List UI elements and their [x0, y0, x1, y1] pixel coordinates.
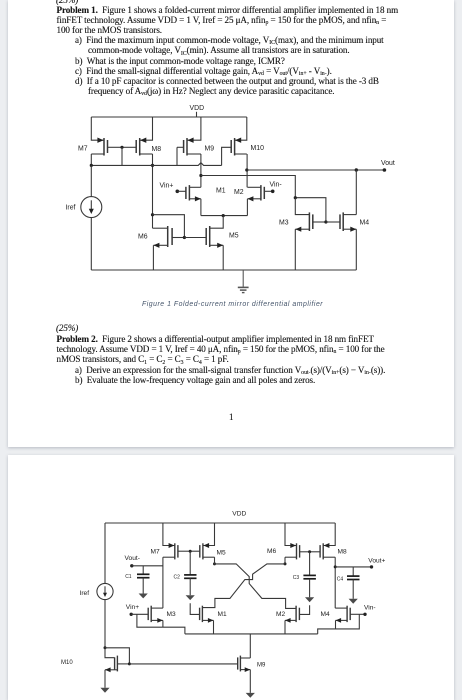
ground: [238, 270, 249, 293]
svg-text:M9: M9: [257, 662, 266, 668]
ground under C2: [186, 595, 195, 600]
wire M8 drain down long: [152, 154, 154, 228]
wire M7 source: [163, 523, 175, 546]
transistor M2: [247, 185, 272, 201]
wire bias rail up to M10 gate: [222, 147, 232, 165]
node M6 drain: [284, 562, 287, 565]
wire bias rail: [91, 163, 221, 166]
current source Iref: [81, 197, 102, 218]
label M3: [279, 220, 289, 227]
wire node B horizontal: [201, 176, 295, 198]
wire M9 drain down to M1 drain: [200, 154, 202, 187]
svg-text:Vout-: Vout-: [125, 555, 140, 562]
wire C1 bottom: [142, 578, 144, 594]
node M4 drain junction: [355, 168, 358, 171]
node M6/M8 gate tie: [308, 550, 311, 553]
wire Vin+ to M3 gate: [131, 613, 148, 615]
ground under C1: [139, 594, 148, 599]
wire Iref bottom to ground rail: [90, 218, 92, 270]
label M6: [138, 233, 148, 240]
wire C3 bottom: [309, 579, 311, 598]
transistor M3: [295, 212, 326, 231]
wire M3 source down: [294, 229, 296, 270]
node Vout- terminal: [130, 564, 133, 567]
node Vout takeoff: [245, 168, 248, 171]
node M7/M5 gate tie: [189, 550, 192, 553]
svg-text:M2: M2: [276, 611, 285, 618]
wire M9 gate tie down: [176, 147, 178, 165]
node Vout+ terminal: [370, 565, 373, 568]
label M6: [267, 548, 276, 555]
wire M2 source down: [284, 620, 286, 634]
wire M8 source to VDD: [140, 117, 153, 140]
wire cross-couple M6 to M1 drain: [202, 564, 285, 608]
label Vin+: [126, 604, 139, 611]
transistor M9: [177, 138, 201, 156]
node M5/M6 gate tie: [183, 236, 186, 239]
wire Vin- loop down: [336, 614, 360, 629]
capacitor C4: [347, 576, 360, 579]
transistor M1: [186, 185, 201, 201]
transistor M2: [285, 606, 299, 623]
wire M5 source: [203, 523, 215, 546]
label M2: [276, 611, 285, 618]
wire tail: [201, 215, 248, 217]
label M4: [360, 220, 370, 227]
label Iref: [80, 590, 90, 597]
node M7/M8 gate tie: [120, 146, 123, 149]
wire M3 source rail: [163, 627, 185, 634]
wire M6 drain lead in: [153, 227, 168, 229]
wire M6 source: [285, 523, 297, 546]
transistor M7: [91, 138, 122, 156]
ground under M10: [100, 688, 109, 693]
node Vin+ terminal: [130, 613, 133, 616]
node M10 drain junction: [128, 662, 131, 665]
transistor M10: [105, 656, 129, 673]
wire VDD rail: [91, 116, 247, 118]
ground under M9: [246, 693, 255, 698]
svg-text:M4: M4: [321, 611, 330, 618]
wire Vin+ to M1 gate: [177, 190, 186, 192]
wire mirror gate M10 to M9: [129, 663, 237, 665]
transistor M4: [335, 606, 365, 623]
label C1: [125, 574, 132, 580]
wire M6 diode loop: [153, 215, 185, 238]
label C2: [174, 575, 181, 581]
wire Vin+ loop down: [137, 614, 163, 627]
wire M1 source down: [200, 199, 202, 216]
svg-text:C3: C3: [293, 575, 300, 581]
label M8: [338, 549, 347, 556]
wire Iref bottom: [104, 600, 106, 648]
transistor M8: [310, 543, 336, 559]
node M5 drain: [213, 562, 216, 565]
wire Vout+: [335, 566, 371, 568]
transistor M5: [184, 226, 223, 248]
wire C1 top: [142, 566, 144, 575]
label M1: [218, 611, 227, 618]
wire M6 source down: [152, 245, 154, 270]
ground under C3: [305, 597, 314, 602]
label Vout-: [125, 555, 140, 562]
transistor M8: [122, 138, 153, 156]
wire M4 source rail: [318, 629, 336, 634]
wire gate tie down to C2: [189, 551, 191, 575]
wire M10 source to VDD: [235, 117, 247, 140]
wire C4 bottom: [352, 580, 354, 599]
wire M1 gate up: [190, 603, 199, 614]
wire M5 drain down: [214, 557, 216, 564]
label C4: [337, 576, 344, 582]
label M3: [167, 611, 176, 618]
svg-text:C2: C2: [174, 575, 181, 581]
wire gate tie down to C3: [309, 552, 311, 576]
wire C2 bottom: [189, 578, 191, 595]
VDD net label: [190, 105, 205, 112]
label M8: [152, 146, 162, 153]
wire M10 gate tie: [105, 648, 115, 658]
label M7: [151, 549, 160, 556]
label Iref: [66, 204, 76, 211]
wire M2 gate up: [299, 605, 309, 614]
wire M9 drain up to tail: [249, 634, 251, 658]
transistor M9: [238, 656, 251, 672]
wire M7 drain down: [90, 154, 92, 165]
wire gate tie down to bias rail: [121, 147, 123, 165]
transistor M7: [163, 543, 190, 559]
label M5: [217, 549, 226, 556]
wire M10 drain down to M2 drain: [246, 154, 248, 187]
wire M2 source down: [246, 199, 248, 216]
node bias rail left end: [90, 164, 93, 167]
label M10: [61, 660, 73, 666]
node Vout+ takeoff: [334, 565, 337, 568]
label M5: [229, 232, 239, 239]
wire Vout-: [132, 565, 163, 567]
page 1 text: [56, 0, 78, 5]
wire M4 drain up to Vout: [355, 170, 357, 215]
current source Iref: [97, 583, 113, 599]
node tail junction: [222, 214, 225, 217]
svg-text:M3: M3: [167, 611, 176, 618]
svg-text:Vin-: Vin-: [364, 604, 376, 611]
node M3/M4 gate tie: [324, 220, 327, 223]
label M9: [205, 145, 215, 152]
node Vin- terminal: [271, 190, 275, 194]
svg-text:VDD: VDD: [232, 510, 246, 517]
wire VDD rail: [105, 522, 335, 524]
transistor M5: [190, 543, 214, 559]
wire M7 source to VDD: [91, 117, 104, 140]
svg-text:Vout+: Vout+: [368, 557, 385, 564]
wire M3 drain up: [295, 198, 309, 215]
label M7: [78, 145, 88, 152]
wire tail rail: [185, 633, 318, 635]
label Vin+: [160, 182, 174, 189]
svg-text:M8: M8: [338, 549, 347, 556]
svg-text:M7: M7: [151, 549, 160, 556]
wire M8 source: [323, 523, 335, 546]
node Vin- terminal: [363, 613, 366, 616]
wire cross-couple M5 to M2 drain: [215, 564, 297, 609]
wire output line to Vout: [247, 169, 385, 171]
transistor M1: [200, 606, 214, 623]
capacitor C3: [303, 575, 316, 578]
wire tail down to M5 drain: [210, 216, 224, 229]
svg-text:M5: M5: [217, 549, 226, 556]
node Vout terminal: [383, 168, 387, 172]
wire ground rail: [91, 269, 356, 271]
label M10: [251, 145, 265, 152]
svg-text:Vin+: Vin+: [126, 604, 139, 611]
label Vout: [381, 160, 395, 167]
VDD net label: [232, 510, 246, 517]
wire VDD stub: [196, 112, 198, 117]
wire M9 source down: [249, 670, 251, 693]
node M9/M1 drain to wire2: [199, 174, 202, 177]
figure 1 caption: [142, 301, 323, 308]
page number: [229, 412, 233, 422]
label Vin-: [364, 604, 376, 611]
svg-text:M10: M10: [61, 660, 73, 666]
capacitor C1: [137, 574, 150, 577]
wire M4 source down: [355, 229, 357, 270]
wire M3 source down: [162, 620, 164, 627]
capacitor C2: [184, 575, 196, 578]
transistor M4: [326, 212, 356, 231]
wire Iref to M10 drain: [105, 648, 129, 664]
wire Iref top: [104, 523, 106, 583]
label M9: [257, 662, 266, 668]
node M3 drain junction: [294, 196, 297, 199]
svg-text:M6: M6: [267, 548, 276, 555]
svg-text:C1: C1: [125, 574, 132, 580]
node Iref / M10 junction: [104, 646, 107, 649]
transistor M6: [153, 226, 184, 248]
wire M4 source down: [335, 620, 337, 629]
svg-text:Iref: Iref: [80, 590, 90, 597]
wire Iref top: [90, 165, 92, 196]
wire M6 drain down: [284, 557, 286, 564]
transistor M3: [148, 606, 163, 623]
node M8 drain / bias rail junction: [151, 164, 154, 167]
label M1: [216, 187, 226, 194]
page 2 text: [56, 323, 78, 333]
wire M10 source down: [104, 670, 106, 688]
wire C4 top: [352, 567, 354, 576]
label Vin-: [270, 182, 282, 189]
wire M5 source down: [222, 245, 224, 270]
transistor M10: [231, 138, 247, 156]
wire M7 drain down to M3 drain: [162, 557, 164, 608]
svg-text:C4: C4: [337, 576, 344, 582]
transistor M6: [285, 543, 310, 559]
node M8 drain / M6 mirror junction: [151, 213, 154, 216]
label M2: [234, 189, 244, 196]
wire M1 source down: [213, 620, 215, 634]
node Vin+ terminal: [176, 190, 180, 194]
svg-text:M1: M1: [218, 611, 227, 618]
wire M9 source to VDD: [187, 117, 201, 140]
ground under C4: [349, 599, 358, 604]
label C3: [293, 575, 300, 581]
label M4: [321, 611, 330, 618]
label Vout+: [368, 557, 385, 564]
wire M8 drain down to M4 drain: [334, 557, 336, 608]
wire node B to mirror gates: [295, 198, 326, 222]
